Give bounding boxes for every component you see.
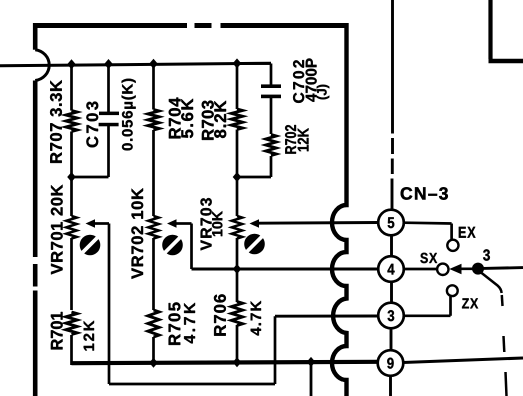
label SX [420, 253, 437, 263]
capacitor C703 [99, 112, 119, 127]
wire - C703 branch with bottom jog [71, 64, 109, 177]
second enclosure corner top-right [489, 0, 523, 61]
resistor R704 5.6K [148, 110, 159, 131]
label VR701 20K [51, 185, 63, 275]
label R702 value 12K [298, 128, 309, 151]
dashed enclosure border - right side with wire hops [332, 23, 347, 396]
junction - SX wire / R706 top node [233, 264, 242, 274]
label C702 tolerance (J) [317, 85, 330, 100]
resistor R701 12K [66, 312, 77, 335]
wire - pin 4 to SX test point [404, 268, 437, 271]
resistor R707 3.3K [66, 111, 77, 132]
wire - R707/VR701/R701 column [70, 64, 73, 365]
wire - ground bus into pin 9 [72, 358, 523, 363]
wire - VR703 wiper to pin 5 (EX net) [258, 221, 379, 225]
label C702 [293, 60, 304, 103]
junction - top bus / R703 column [233, 58, 242, 68]
junction - top bus / C703 branch [104, 59, 113, 69]
label node 3 [483, 249, 490, 260]
junction - R703/R702 node [233, 172, 242, 182]
arrow into SX test point [449, 264, 461, 274]
connector pin 5 [378, 210, 404, 236]
label C703 [86, 102, 98, 148]
label R703 [202, 101, 214, 140]
trimmer VR703 10K [232, 216, 265, 254]
test point SX [437, 264, 448, 275]
wire - pin 3 to ZX test point [404, 297, 451, 316]
label R701 [51, 312, 63, 349]
label VR703 value 10K [212, 211, 222, 236]
wire - R703/VR703/R706 column [236, 64, 239, 364]
label CN-3 [401, 187, 448, 199]
junction - C703 bottom node [67, 172, 76, 182]
label R705 value 4.7K [184, 303, 195, 344]
wire - node 3 to right edge [483, 266, 523, 270]
connector CN-3 boundary dashed line [391, 0, 393, 396]
wire - VR702 wiper to pin 4 (SX net) [176, 224, 379, 270]
wire - VR701 wiper to pin 3 (ZX net) [95, 224, 379, 385]
dashed enclosure border - left side with wire hop [35, 23, 49, 396]
wire - stub from ground bus to bottom edge [310, 362, 313, 396]
label C703 value [122, 79, 136, 151]
label C702 value 4700P [306, 58, 317, 101]
junction - ground bus / stub [307, 357, 316, 367]
resistor R703 8.2K [231, 109, 242, 130]
wire - SX arrow tail to node 3 [456, 267, 473, 270]
label R703 value 8.2K [214, 101, 226, 138]
wire - pin 5 to EX test point [404, 223, 452, 240]
label ZX [462, 298, 478, 308]
label R704 [169, 98, 181, 139]
label R702 [285, 125, 296, 154]
label R704 value 5.6K [181, 99, 193, 138]
dashed enclosure border - top side [33, 23, 349, 28]
trimmer VR701 20K [66, 216, 100, 255]
resistor R702 12K [266, 135, 276, 156]
wire - C702/R702 parallel branch [237, 64, 271, 178]
test point EX [447, 240, 458, 251]
connector pin 4 [378, 256, 404, 282]
label VR702 10K [131, 188, 143, 279]
label R707 3.3K [50, 80, 62, 163]
test point ZX [447, 285, 458, 296]
wire - R704/VR702/R705 column [152, 64, 155, 365]
label EX [459, 227, 476, 238]
resistor R705 4.7K [148, 310, 159, 337]
junction - node 3 [472, 263, 484, 275]
trimmer VR702 10K [148, 216, 183, 255]
label R706 value 4.7K [251, 301, 261, 336]
capacitor C702 [261, 84, 281, 98]
connector pin 3 [378, 303, 404, 329]
junction - ground bus / R705 [149, 358, 158, 368]
label VR703 [200, 198, 211, 250]
connector pin 9 [378, 350, 404, 376]
label R705 [168, 302, 180, 344]
junction - ground bus / R706 [233, 357, 242, 367]
junction - top bus / R707 column [67, 59, 76, 69]
label R701 value 12K [84, 321, 94, 351]
label R706 [214, 294, 226, 335]
wire - node 3 dashed branch going down [481, 273, 507, 396]
resistor R706 4.7K [231, 302, 242, 326]
junction - top bus / R704 column [149, 59, 158, 69]
wire - main horizontal bus at top [0, 63, 271, 66]
